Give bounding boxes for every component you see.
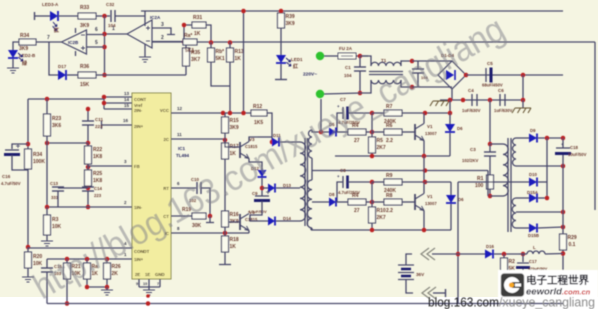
capacitor C6 — [500, 94, 505, 106]
1IN- pin 2 wire — [47, 206, 132, 208]
FB pin 3 wire — [88, 165, 132, 167]
wire — [449, 133, 451, 156]
wire — [432, 253, 458, 255]
wire — [538, 137, 563, 139]
svg-text:2: 2 — [161, 35, 164, 41]
svg-text:R8: R8 — [386, 193, 393, 199]
wire R7 — [372, 112, 384, 114]
wire — [494, 253, 519, 255]
svg-text:R6: R6 — [386, 123, 393, 129]
pin 14 wire — [104, 102, 132, 104]
svg-text:D15B: D15B — [528, 233, 539, 238]
svg-text:D9: D9 — [530, 128, 536, 133]
svg-text:LED3-A: LED3-A — [42, 2, 59, 7]
diode D9 — [529, 134, 537, 143]
wire C8 right — [348, 181, 372, 183]
resistor R4 — [348, 129, 366, 135]
LED LED1 — [276, 55, 286, 63]
diode D6 — [445, 124, 455, 132]
capacitor C5 — [485, 68, 487, 82]
capacitor C14 — [82, 186, 94, 188]
svg-text:C8: C8 — [340, 168, 346, 173]
svg-text:1K8: 1K8 — [93, 178, 102, 184]
1IN+ pin 1 wire — [47, 258, 132, 260]
svg-text:R4: R4 — [352, 193, 359, 199]
center tap column — [457, 182, 459, 304]
svg-text:220V~: 220V~ — [303, 72, 317, 78]
resistor R31 — [192, 22, 206, 28]
svg-text:3K9: 3K9 — [230, 125, 239, 131]
wire — [360, 80, 371, 93]
svg-text:2IN-: 2IN- — [134, 108, 143, 113]
IC bottom pins — [138, 279, 140, 287]
wire C7 right — [348, 112, 372, 114]
riser to cap row — [522, 75, 524, 100]
T3 lower tap wire — [312, 201, 330, 203]
IC U1 TL494 body — [132, 93, 171, 279]
transistor V3 — [239, 142, 241, 158]
resistor R9 — [384, 179, 402, 185]
resistor R23 — [44, 114, 51, 136]
half-bridge link wire — [423, 156, 425, 183]
IC2A output pin 1 wire — [105, 33, 127, 35]
svg-text:C6: C6 — [498, 88, 504, 93]
wire — [490, 195, 503, 197]
svg-text:7: 7 — [47, 35, 50, 41]
terminal 220V live — [316, 52, 324, 60]
svg-text:LED1: LED1 — [291, 57, 303, 62]
svg-text:C1: C1 — [345, 65, 351, 70]
op-amp IC2B — [62, 30, 87, 54]
svg-text:3K7: 3K7 — [191, 57, 200, 63]
svg-text:5K1: 5K1 — [185, 48, 194, 54]
wire — [450, 204, 452, 230]
svg-text:FU 2A: FU 2A — [339, 46, 353, 51]
bottom rail wire — [47, 303, 563, 305]
svg-text:36V: 36V — [416, 272, 425, 277]
wire — [489, 156, 491, 175]
IC2A pin 2 wire — [152, 41, 183, 43]
resistor R10 — [369, 207, 376, 223]
diode D13 — [268, 184, 275, 193]
wire — [372, 181, 384, 183]
svg-text:/xueye_cangliang: /xueye_cangliang — [499, 296, 595, 309]
svg-text:2E: 2E — [135, 272, 140, 277]
svg-text:D6: D6 — [458, 197, 464, 202]
IC2A pin 3 wire — [152, 28, 171, 34]
wire — [371, 223, 373, 230]
svg-text:2.2: 2.2 — [386, 138, 393, 144]
svg-text:102/2KV: 102/2KV — [462, 158, 479, 163]
resistor R6 — [384, 129, 402, 135]
connector chevron top — [421, 248, 435, 260]
svg-text:C4: C4 — [468, 88, 474, 93]
resistor R4b — [348, 199, 366, 205]
wire — [366, 131, 372, 133]
wire feedback bottom — [96, 74, 186, 76]
T3 secondary lower coil — [307, 180, 312, 228]
V2 emitter wire — [423, 211, 425, 231]
resistor R29 — [560, 234, 567, 250]
svg-text:T1: T1 — [381, 58, 387, 63]
V3 collector wire — [249, 137, 258, 142]
svg-text:1E: 1E — [145, 272, 150, 277]
svg-text:R10: R10 — [377, 208, 386, 214]
svg-text:R9: R9 — [386, 173, 393, 179]
svg-text:R31: R31 — [193, 15, 202, 21]
CONDT pin 4 wire — [28, 247, 132, 249]
wire — [86, 259, 88, 263]
svg-text:V1: V1 — [427, 194, 433, 199]
resistor R34 — [19, 39, 36, 45]
wire — [371, 153, 373, 156]
svg-text:C32: C32 — [106, 2, 115, 7]
wire — [27, 247, 29, 252]
rail2 left riser — [310, 228, 312, 230]
wire DC+ to primary — [489, 100, 491, 144]
svg-text:2K: 2K — [112, 271, 119, 277]
svg-text:4.7uF/50V: 4.7uF/50V — [1, 181, 21, 186]
svg-text:D10: D10 — [529, 172, 537, 177]
wire Rb* bottom — [210, 42, 212, 48]
capacitor C13 — [58, 187, 88, 189]
cap row wire — [440, 99, 523, 101]
ground wire Ra R26 — [87, 286, 107, 288]
VCC pin 12 wire — [171, 112, 255, 114]
rectifier join column — [546, 138, 548, 198]
wire — [224, 133, 226, 143]
svg-text:1IN+: 1IN+ — [134, 257, 144, 262]
wire top bus riser — [144, 11, 146, 26]
wire C15 bottom — [46, 272, 48, 304]
svg-text:L: L — [533, 245, 536, 250]
resistor R36 — [78, 72, 96, 78]
wire — [372, 131, 384, 133]
filter transformer T1 — [360, 56, 371, 66]
battery top wire — [406, 254, 412, 265]
svg-text:3K9: 3K9 — [19, 46, 28, 52]
wire — [87, 186, 89, 188]
right rail wire — [594, 42, 596, 210]
svg-text:R23: R23 — [52, 116, 61, 122]
IC2B pin 5 wire — [87, 46, 105, 48]
rail1 wire — [335, 155, 450, 157]
svg-text:100: 100 — [475, 183, 484, 189]
svg-text:C13: C13 — [50, 181, 58, 186]
pin 15 wire — [104, 108, 132, 110]
wire — [417, 73, 419, 87]
svg-text:R2: R2 — [509, 259, 516, 265]
resistor Rc — [84, 263, 91, 279]
wire — [519, 253, 527, 255]
T1 core — [369, 71, 403, 73]
svg-text:2IN+: 2IN+ — [134, 124, 144, 129]
fuse FU 2A — [324, 55, 338, 57]
diode D5 — [329, 128, 336, 137]
svg-text:15K: 15K — [80, 82, 90, 88]
wire VCC riser — [243, 11, 245, 113]
capacitor C32 — [110, 10, 112, 22]
svg-text:3K9: 3K9 — [80, 23, 89, 29]
svg-text:blog.163.com: blog.163.com — [428, 296, 499, 309]
resistor R21 — [64, 263, 71, 279]
wire — [201, 188, 210, 216]
resistor R7 — [384, 110, 402, 116]
svg-text:1K: 1K — [235, 56, 242, 62]
ground under LED2-B — [12, 59, 14, 68]
svg-text:104: 104 — [344, 73, 352, 78]
wire — [356, 55, 368, 57]
bridge ground stem — [451, 89, 453, 99]
svg-text:223: 223 — [95, 124, 103, 129]
wire C1 bottom — [359, 71, 361, 93]
wire C16 bottom — [12, 155, 28, 170]
svg-text:223: 223 — [94, 193, 102, 198]
T3 core — [304, 138, 306, 226]
diode D7 — [446, 195, 456, 203]
svg-text:C17: C17 — [529, 259, 537, 264]
svg-text:10K: 10K — [52, 224, 62, 230]
T1 lower winding — [371, 80, 401, 84]
resistor R25 — [85, 170, 92, 186]
LED LED2-B — [8, 50, 18, 58]
svg-text:27: 27 — [354, 138, 360, 144]
resistor R3 — [44, 215, 51, 235]
wire R31 right — [206, 25, 211, 42]
resistor R2 — [501, 258, 508, 272]
wire — [433, 292, 445, 294]
wire — [35, 15, 51, 17]
pin 13 wire — [104, 96, 132, 98]
wire — [66, 259, 68, 263]
svg-text:红: 红 — [293, 63, 298, 70]
wire — [27, 268, 29, 277]
capacitor C15 — [46, 259, 48, 268]
DC+ wire — [466, 74, 563, 76]
bridge rectifier D1-D4 — [438, 61, 466, 89]
IC2B output pin 7 wire — [36, 41, 62, 43]
svg-text:Ra*: Ra* — [184, 33, 192, 39]
resistor R16 — [222, 211, 229, 227]
capacitor C1 — [359, 56, 361, 67]
wire C9 bottom — [250, 201, 262, 218]
op-amp IC2A — [127, 20, 152, 48]
svg-text:13: 13 — [124, 91, 130, 96]
capacitor C11 — [87, 109, 89, 121]
IC pin 8 wire — [171, 232, 249, 234]
svg-text:R20: R20 — [33, 254, 42, 260]
resistor R1 — [487, 175, 494, 189]
wire R6 to V1 — [402, 131, 415, 133]
svg-text:100K: 100K — [33, 159, 45, 165]
svg-text:R12: R12 — [253, 104, 262, 110]
wire — [87, 143, 89, 146]
wire — [372, 201, 384, 203]
wire — [58, 15, 78, 17]
wire — [46, 207, 48, 215]
svg-text:D17: D17 — [58, 64, 67, 69]
T1 output wires — [401, 61, 412, 66]
svg-text:R18: R18 — [230, 237, 239, 243]
resistor R20 — [25, 252, 32, 268]
wire — [224, 159, 226, 211]
V1 emitter wire — [423, 141, 425, 157]
diode D17 — [58, 70, 66, 80]
wire R12 right — [267, 113, 272, 142]
svg-text:D6: D6 — [457, 126, 463, 131]
svg-text:3: 3 — [161, 22, 164, 28]
wire — [261, 178, 263, 196]
svg-text:GND: GND — [155, 272, 165, 277]
svg-text:14: 14 — [124, 97, 130, 102]
ground R3 — [41, 241, 53, 246]
lower mid tap wire — [516, 211, 563, 213]
svg-text:1uF/630V: 1uF/630V — [462, 108, 481, 113]
midpoint riser — [487, 171, 489, 197]
feedback column wire — [104, 16, 106, 75]
svg-text:Rb*: Rb* — [216, 49, 225, 55]
svg-text:D14: D14 — [283, 216, 291, 221]
terminal 220V neutral — [316, 90, 324, 98]
top bus wire — [141, 10, 563, 12]
diode D15A — [529, 194, 537, 203]
svg-text:V1: V1 — [427, 124, 433, 129]
resistor R12 — [251, 110, 267, 116]
svg-text:1K: 1K — [230, 244, 237, 250]
2C pin 11 wire — [171, 138, 225, 140]
LED1 terminal bar — [280, 64, 282, 79]
wire pin7 column — [49, 42, 58, 75]
resistor R17 — [222, 143, 229, 159]
resistor R2 — [503, 254, 505, 258]
resistor R13 — [227, 48, 234, 62]
diode D8 — [329, 198, 336, 207]
resistor R33 — [78, 13, 96, 19]
svg-text:R13: R13 — [235, 49, 244, 55]
V3 emitter wire — [249, 159, 262, 171]
capacitor C8 — [342, 176, 344, 188]
svg-text:C11: C11 — [95, 117, 104, 122]
connector chevron bottom — [422, 287, 436, 299]
svg-text:R34: R34 — [33, 152, 42, 158]
input drop wire — [320, 99, 322, 132]
node junction — [102, 14, 107, 19]
resistor R26 — [104, 263, 111, 279]
capacitor C7 — [342, 107, 344, 119]
svg-text:VCC: VCC — [160, 108, 169, 113]
svg-text:R3: R3 — [52, 217, 59, 223]
svg-text:1K: 1K — [194, 31, 201, 37]
wire — [115, 15, 145, 17]
upper winding bottom tap wire — [516, 165, 563, 167]
svg-text:+: + — [337, 174, 340, 179]
IC2B pin 6 wire — [87, 34, 105, 36]
wire node column — [371, 113, 373, 137]
T2 primary coil — [490, 143, 503, 145]
wire — [57, 191, 59, 207]
resistor Ra* — [183, 39, 197, 45]
svg-text:R36: R36 — [80, 64, 89, 70]
wire — [224, 252, 226, 264]
watermark — [26, 8, 512, 307]
battery 36V — [398, 264, 414, 266]
svg-text:R16: R16 — [230, 212, 239, 218]
wire — [276, 220, 300, 222]
svg-text:红: 红 — [54, 27, 59, 34]
RT pin 6 wire — [171, 187, 196, 189]
T1 upper winding — [371, 62, 401, 66]
ground R20 — [22, 277, 34, 282]
svg-text:C14: C14 — [94, 186, 102, 191]
transformer T3 primary coil — [300, 142, 306, 221]
wire D11 to T3 — [280, 141, 300, 143]
left sense wire — [28, 98, 104, 100]
svg-text:2K7: 2K7 — [377, 215, 386, 221]
eeworld logo panel — [498, 270, 598, 298]
svg-text:1K5: 1K5 — [254, 120, 263, 126]
mid power bus wire — [152, 41, 595, 43]
ground IC — [143, 290, 155, 295]
svg-text:2C: 2C — [164, 137, 170, 142]
svg-text:R5: R5 — [377, 138, 384, 144]
svg-text:C9: C9 — [252, 191, 258, 196]
wire — [46, 235, 48, 241]
V4 base wire — [228, 221, 240, 223]
capacitor C3 — [489, 144, 491, 152]
inductor L — [527, 251, 545, 254]
svg-text:13007: 13007 — [425, 131, 437, 136]
wire — [336, 131, 348, 133]
svg-text:0.1: 0.1 — [569, 242, 576, 248]
svg-text:15: 15 — [124, 103, 130, 108]
output bus column — [562, 138, 564, 148]
svg-text:5: 5 — [95, 40, 98, 46]
wire — [545, 253, 563, 256]
svg-text:V4: V4 — [249, 210, 255, 215]
wire — [562, 250, 564, 278]
riser bridge to row — [451, 99, 453, 100]
diode D9 — [516, 137, 529, 139]
resistor R8 — [384, 199, 402, 205]
svg-text:27: 27 — [354, 208, 360, 214]
resistor R5 — [369, 137, 376, 153]
riser to rail1 — [449, 100, 451, 113]
svg-text:2.2: 2.2 — [386, 208, 393, 214]
wire — [86, 279, 88, 287]
svg-text:C18: C18 — [570, 145, 578, 150]
svg-text:1: 1 — [112, 26, 115, 32]
left bus wire — [46, 99, 48, 114]
wire — [276, 187, 300, 189]
diode D16 — [485, 250, 493, 259]
svg-text:IC2A: IC2A — [150, 15, 161, 20]
svg-text:电子工程世界: 电子工程世界 — [526, 274, 589, 287]
wire bus to C11 — [47, 142, 88, 144]
diode D11 — [272, 138, 279, 147]
transistor V2 — [414, 194, 416, 210]
diode D15B — [529, 224, 537, 233]
diode D13 row — [262, 187, 268, 189]
svg-text:13007: 13007 — [425, 201, 437, 206]
ground hatch C6 — [522, 100, 524, 108]
capacitor C18 — [556, 147, 570, 149]
V2 collector wire — [423, 182, 425, 194]
wire — [106, 259, 108, 263]
wire R13 bottom — [229, 42, 231, 48]
svg-text:7: 7 — [157, 282, 159, 286]
wire — [336, 201, 348, 203]
T3 bottom wire — [311, 228, 313, 230]
